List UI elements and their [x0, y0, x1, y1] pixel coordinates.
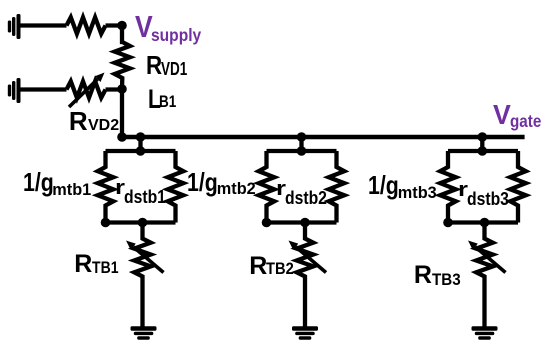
label r_dstb2 (r): [276, 179, 286, 199]
label R_VD2 (subscript): [88, 118, 119, 134]
resistor r_dstb1 (block 1 right branch): [168, 151, 184, 223]
node (block 2 bottom-center dot): [300, 218, 310, 228]
node (bus left end dot): [117, 132, 127, 142]
wire (block 2 top bar): [267, 149, 337, 153]
node (block 1 bottom-center dot): [138, 218, 148, 228]
arrow of R_VD2: [69, 73, 105, 108]
resistor 1/g_mtb2 (block 2 left branch): [259, 151, 275, 223]
label r_dstb3 (subscript): [467, 190, 509, 208]
arrow of R_TB1: [126, 241, 164, 273]
wire (block 3 top bar): [448, 149, 518, 153]
ground (below R_TB3): [472, 326, 498, 339]
node (block 1 bottom-left dot): [101, 218, 111, 228]
label r_dstb2 (subscript): [285, 189, 327, 207]
resistor 1/g_mtb1 (block 1 left branch): [98, 151, 114, 223]
label R_TB2 (R): [249, 254, 267, 279]
label R_VD2 (R): [69, 108, 88, 134]
label R_VD1 (R): [146, 52, 162, 78]
wire (bus to block 1): [138, 137, 142, 151]
variable resistor R_TB3: [476, 223, 493, 327]
ground (below R_TB1): [131, 326, 157, 339]
node (bus junction dot, block 2): [297, 132, 307, 142]
label R_TB3 (subscript): [432, 272, 461, 289]
wire (bus to block 2): [299, 137, 303, 151]
label 1/g_mtb2 (subscript): [217, 181, 256, 197]
node (block 3 bottom-left dot): [443, 218, 453, 228]
resistor R_VD1: [115, 26, 130, 89]
wire (top-left ground to resistor): [20, 23, 67, 27]
label 1/g_mtb3 (subscript): [398, 185, 437, 201]
label V_supply (subscript): [151, 27, 201, 45]
label 1/g_mtb3 (1/g): [368, 172, 399, 198]
label V_gate (subscript): [510, 113, 541, 131]
node (block 2 bottom-left dot): [262, 218, 272, 228]
label L_B1 (L): [148, 86, 161, 113]
resistor (top supply branch): [67, 17, 106, 33]
wire (bus to block 3): [480, 137, 484, 151]
node Vsupply (junction dot): [117, 21, 127, 31]
label r_dstb1 (subscript): [124, 188, 166, 206]
label R_TB2 (subscript): [266, 261, 294, 278]
arrow of R_TB2: [289, 241, 327, 273]
node (bus junction dot, block 3): [478, 132, 488, 142]
variable resistor R_VD2: [67, 81, 106, 97]
label r_dstb1 (r): [115, 178, 125, 198]
label L_B1 (subscript): [159, 94, 176, 111]
wire (block 2 bottom bar): [267, 220, 337, 224]
ground (bias return, mid-left): [8, 78, 21, 103]
label 1/g_mtb1 (1/g): [23, 169, 54, 195]
wire (block 1 top bar): [106, 149, 176, 153]
label R_VD1 (subscript): [161, 60, 187, 78]
wire / inductor L_B1 (node A to gate bus): [120, 89, 124, 137]
wire (V_gate bus): [120, 135, 525, 140]
node (bus junction dot, block 1): [136, 132, 146, 142]
arrow of R_TB3: [468, 241, 506, 273]
variable resistor R_TB2: [297, 223, 314, 327]
label R_TB3 (R): [414, 263, 432, 288]
resistor r_dstb2 (block 2 right branch): [329, 151, 345, 223]
ground (supply return, top-left): [8, 14, 21, 39]
label r_dstb3 (r): [458, 180, 468, 200]
wire (mid-left ground to R_VD2): [20, 87, 67, 91]
label V_gate (V): [493, 101, 511, 129]
node A (R_VD1/R_VD2 junction dot): [117, 84, 127, 94]
wire (resistor to Vsupply node): [106, 23, 123, 27]
wire (block 3 bottom bar): [448, 220, 518, 224]
label R_TB1 (R): [74, 252, 92, 277]
resistor r_dstb3 (block 3 right branch): [510, 151, 526, 223]
label 1/g_mtb2 (1/g): [187, 169, 218, 195]
node (block 3 bottom-center dot): [480, 218, 490, 228]
label R_TB1 (subscript): [92, 260, 118, 277]
node (block 1 top-center dot): [136, 146, 146, 156]
wire (R_VD2 to node A): [106, 87, 123, 91]
label V_supply (V): [135, 12, 153, 43]
label 1/g_mtb1 (subscript): [52, 182, 91, 198]
ground (below R_TB2): [292, 326, 318, 339]
wire (block 1 bottom bar): [106, 220, 176, 224]
resistor 1/g_mtb3 (block 3 left branch): [440, 151, 456, 223]
node (block 3 top-center dot): [478, 146, 488, 156]
variable resistor R_TB1: [134, 223, 151, 327]
node (block 2 top-center dot): [297, 146, 307, 156]
